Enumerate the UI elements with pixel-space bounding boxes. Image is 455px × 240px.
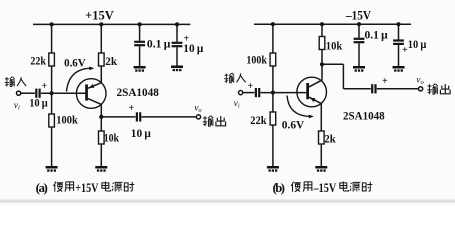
node base junction b	[271, 91, 275, 95]
svg-text:10 μ: 10 μ	[29, 97, 48, 109]
wire input terminal to C5	[243, 92, 255, 94]
label input b 输入	[224, 73, 234, 83]
wire output elbow down	[342, 64, 344, 89]
svg-text:+15V: +15V	[85, 8, 114, 22]
node collector-output junction	[99, 115, 103, 119]
node rail-10k junction b	[320, 22, 324, 26]
wire elbow to C8	[343, 88, 370, 90]
transistor Q1 base bar	[85, 84, 88, 100]
transistor Q1 collector lead	[88, 99, 101, 105]
svg-text:(b): (b)	[273, 180, 286, 195]
ground under R8	[315, 166, 327, 172]
svg-text:+: +	[247, 81, 253, 92]
node base junction A	[50, 91, 54, 95]
capacitor C3 10u filter	[172, 42, 183, 48]
svg-text:10 μ: 10 μ	[131, 128, 151, 140]
ground under C3	[171, 66, 183, 72]
capacitor C7 10u filter b	[393, 39, 404, 45]
wire C4 to output terminal	[142, 116, 197, 118]
ground under C7	[393, 66, 405, 72]
svg-text:(a): (a)	[36, 180, 48, 195]
resistor R8 2k	[319, 131, 325, 144]
node rail-C2 junction	[138, 22, 142, 26]
svg-text:2SA1048: 2SA1048	[343, 110, 385, 122]
terminal input vi	[17, 91, 21, 95]
node rail-2k junction	[99, 22, 103, 26]
wire C2 to ground	[139, 46, 141, 66]
wire R5 bottom through base node to R6	[272, 66, 274, 112]
wire rail to R5 top	[272, 24, 274, 53]
transistor Q1 emitter arrow (PNP)	[89, 84, 95, 88]
ground under R4	[95, 166, 107, 172]
ground under R6	[267, 166, 279, 172]
svg-text:+: +	[41, 81, 47, 92]
node rail-22k junction	[50, 22, 54, 26]
wire R7 bottom to collector	[321, 50, 323, 81]
svg-text:0.1 μ: 0.1 μ	[147, 38, 171, 50]
capacitor C8 10u output coupling b	[371, 84, 377, 93]
wire R1 bottom to base node	[51, 66, 53, 114]
svg-text:2SA1048: 2SA1048	[117, 87, 160, 99]
wire R3 bottom to emitter	[100, 66, 102, 83]
svg-text:10 μ: 10 μ	[408, 39, 427, 51]
transistor Q2 collector lead	[309, 80, 321, 87]
svg-text:–15V: –15V	[313, 180, 337, 195]
svg-text:10k: 10k	[326, 40, 343, 52]
wire rail to C6	[358, 24, 360, 38]
node rail-C7 junction b	[396, 22, 400, 26]
wire rail to R1 top	[51, 24, 53, 53]
wire collector down to output node	[100, 104, 102, 131]
terminal output vo	[196, 115, 200, 119]
resistor R4 10k	[99, 131, 105, 144]
ground under C2	[134, 66, 146, 72]
svg-text:0.6V: 0.6V	[282, 119, 305, 131]
resistor R7 10k	[319, 37, 325, 50]
transistor Q1 2SA1048 body circle	[76, 79, 106, 109]
svg-text:+15V: +15V	[75, 180, 99, 195]
svg-text:0.6V: 0.6V	[64, 58, 86, 70]
svg-text:0.1 μ: 0.1 μ	[365, 29, 389, 41]
svg-text:2k: 2k	[105, 56, 117, 68]
wire output node to C4	[101, 116, 135, 118]
scan artifact bottom edge	[0, 200, 455, 203]
transistor Q2 base bar	[306, 83, 309, 99]
wire C6 to ground	[358, 43, 360, 66]
wire C5 to base b	[261, 92, 307, 94]
transistor Q2 2SA1048 body circle	[297, 77, 327, 107]
label output b 输出	[427, 84, 438, 95]
resistor R1 22k	[49, 53, 55, 66]
svg-text:22k: 22k	[250, 115, 267, 127]
capacitor C1 10u input coupling	[35, 89, 41, 98]
transistor Q1 emitter lead	[88, 83, 101, 89]
wire input terminal to C1	[21, 92, 35, 94]
capacitor C5 10u input coupling b	[255, 88, 260, 97]
svg-text:100k: 100k	[246, 55, 267, 67]
wire -15V supply rail (circuit b)	[254, 23, 411, 25]
ground under R2	[46, 166, 58, 172]
wire rail to R3 top	[100, 24, 102, 53]
svg-text:100k: 100k	[56, 114, 78, 126]
svg-text:+: +	[382, 76, 388, 87]
terminal output vo b	[419, 87, 423, 91]
capacitor C2 0.1u bypass	[134, 41, 145, 47]
capacitor C4 10u output coupling	[136, 112, 142, 121]
annotation 0.6V arc arrow b	[287, 96, 311, 117]
svg-text:10 μ: 10 μ	[183, 43, 203, 55]
wire C7 to ground	[398, 45, 400, 66]
wire R4 bottom to ground	[100, 144, 102, 166]
wire C1 to base	[41, 92, 86, 94]
svg-text:10k: 10k	[104, 132, 120, 144]
wire +15V supply rail (circuit a)	[33, 23, 190, 25]
node rail-C3 junction	[175, 22, 179, 26]
wire R6 bottom to ground	[272, 125, 274, 166]
wire output elbow right	[322, 63, 343, 65]
svg-text:22k: 22k	[30, 56, 46, 68]
wire C3 to ground	[176, 47, 178, 65]
svg-text:2k: 2k	[324, 133, 336, 145]
transistor Q2 emitter arrow (PNP)	[310, 98, 316, 102]
capacitor C6 0.1u bypass b	[354, 38, 365, 44]
terminal input vi b	[239, 91, 243, 95]
resistor R6 22k	[270, 112, 276, 125]
wire rail to C2	[139, 24, 141, 40]
resistor R2 100k	[49, 114, 55, 127]
annotation 0.6V arc arrow	[67, 68, 92, 91]
wire R8 bottom to ground	[320, 144, 322, 166]
node rail-C6 junction b	[357, 22, 361, 26]
node collector-output junction b	[320, 62, 324, 66]
wire emitter down to R8	[320, 104, 322, 131]
wire R2 bottom to ground	[51, 127, 53, 166]
node rail-100k junction b	[271, 22, 275, 26]
ground under C6	[353, 66, 365, 72]
label output 输出	[203, 116, 214, 127]
resistor R3 2k	[99, 53, 105, 66]
transistor Q2 emitter lead	[309, 97, 321, 103]
wire rail to C7	[398, 24, 400, 39]
wire rail to R7 top	[321, 24, 323, 36]
svg-text:–15V: –15V	[345, 9, 371, 23]
wire C8 to output terminal b	[377, 88, 419, 90]
wire rail to C3	[176, 24, 178, 41]
svg-text:+: +	[128, 103, 134, 114]
label input 输入	[5, 77, 15, 87]
resistor R5 100k	[270, 53, 276, 66]
